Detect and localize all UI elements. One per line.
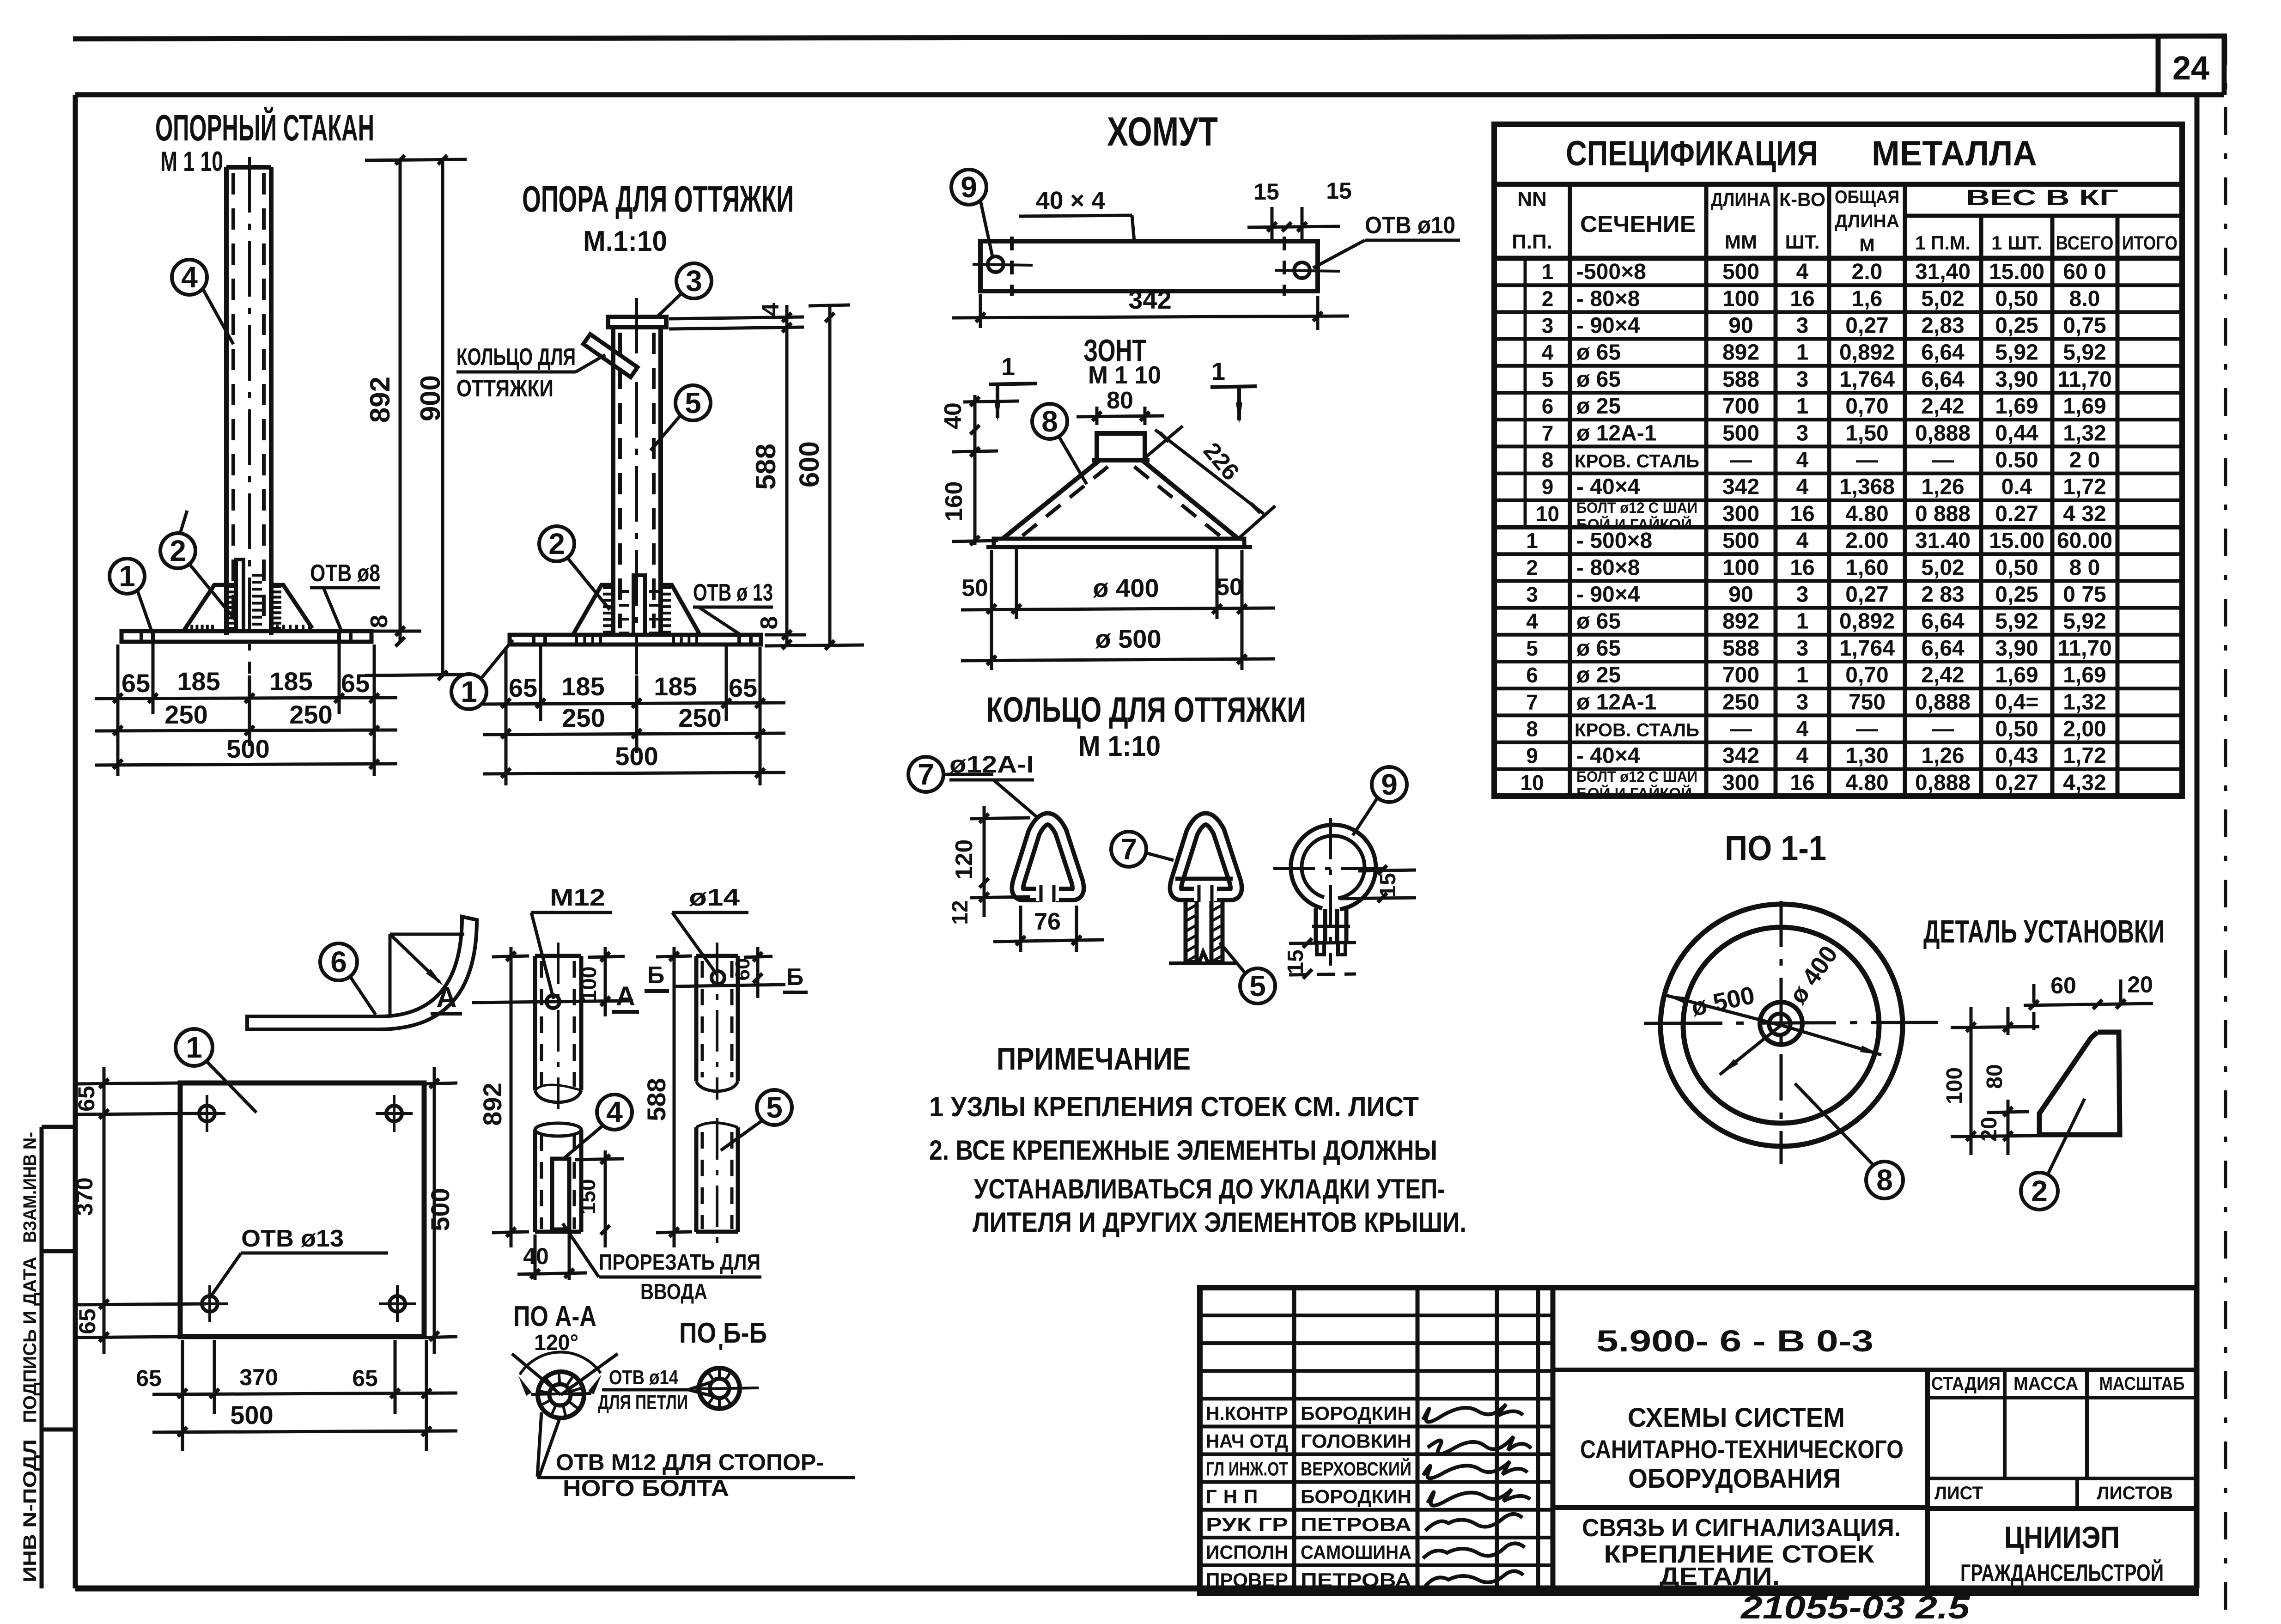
svg-text:5: 5	[1542, 367, 1554, 391]
svg-text:0,4=: 0,4=	[1995, 690, 2039, 714]
svg-text:1,368: 1,368	[1839, 475, 1895, 499]
svg-text:2 0: 2 0	[2069, 448, 2100, 473]
anchor bolt	[236, 560, 243, 631]
svg-text:5,92: 5,92	[1995, 341, 2038, 365]
wedge plate outline	[2039, 1032, 2120, 1135]
svg-text:0,892: 0,892	[1839, 609, 1895, 634]
svg-text:90: 90	[1728, 314, 1753, 338]
svg-text:М 1 10: М 1 10	[160, 146, 223, 177]
dim 892 vertical line	[399, 159, 402, 642]
svg-text:8: 8	[366, 615, 393, 628]
svg-text:4: 4	[606, 1095, 623, 1129]
svg-text:МЕТАЛЛА: МЕТАЛЛА	[1872, 134, 2037, 173]
svg-text:ОПОРНЫЙ СТАКАН: ОПОРНЫЙ СТАКАН	[155, 107, 374, 148]
svg-text:1: 1	[1211, 358, 1225, 385]
svg-text:31.40: 31.40	[1915, 529, 1971, 553]
svg-text:16: 16	[1790, 502, 1814, 526]
svg-text:М12: М12	[550, 884, 605, 911]
table row 11	[1494, 552, 2182, 556]
svg-text:4.80: 4.80	[1845, 502, 1888, 526]
svg-text:15.00: 15.00	[1989, 260, 2044, 284]
dim line 65-185-185-65 drawing1	[95, 698, 397, 699]
sheet number box	[2156, 37, 2161, 95]
svg-text:ОПОРА ДЛЯ ОТТЯЖКИ: ОПОРА ДЛЯ ОТТЯЖКИ	[522, 178, 794, 219]
svg-text:3: 3	[1526, 583, 1538, 607]
svg-text:ø 65: ø 65	[1576, 636, 1621, 661]
svg-text:1 УЗЛЫ КРЕПЛЕНИЯ СТОЕК СМ. ЛИ: 1 УЗЛЫ КРЕПЛЕНИЯ СТОЕК СМ. ЛИСТ	[929, 1091, 1419, 1122]
svg-text:УСТАНАВЛИВАТЬСЯ ДО УКЛАДКИ УТЕ: УСТАНАВЛИВАТЬСЯ ДО УКЛАДКИ УТЕП-	[974, 1174, 1445, 1204]
svg-text:ø12А-I: ø12А-I	[949, 751, 1034, 778]
table row 13	[1494, 606, 2182, 610]
svg-text:ø 12А-1: ø 12А-1	[1576, 690, 1656, 714]
svg-text:ЦНИИЭП: ЦНИИЭП	[2004, 1520, 2120, 1554]
svg-text:Б: Б	[647, 962, 664, 989]
svg-text:1,60: 1,60	[1845, 555, 1888, 580]
scan edge right	[2224, 37, 2227, 1622]
svg-text:ПО 1-1: ПО 1-1	[1725, 829, 1826, 868]
table NN sub column line	[1524, 258, 1527, 527]
svg-text:2: 2	[170, 534, 186, 567]
svg-text:0,70: 0,70	[1845, 663, 1888, 687]
svg-text:1,764: 1,764	[1839, 367, 1895, 392]
dim 226 diagonal	[1155, 430, 1264, 514]
svg-text:4: 4	[1796, 448, 1809, 473]
dim 40 slot	[534, 1235, 537, 1280]
svg-text:СХЕМЫ СИСТЕМ: СХЕМЫ СИСТЕМ	[1628, 1403, 1845, 1433]
svg-text:892: 892	[478, 1083, 507, 1125]
svg-text:0,50: 0,50	[1995, 286, 2038, 311]
svg-text:5,92: 5,92	[2063, 341, 2106, 365]
svg-text:НОГО БОЛТА: НОГО БОЛТА	[563, 1475, 729, 1501]
dim 892 tubes	[510, 947, 513, 1247]
table row 8	[1494, 472, 2182, 475]
svg-text:ПРОВЕР: ПРОВЕР	[1206, 1569, 1288, 1591]
svg-text:65: 65	[509, 673, 537, 702]
tube piece A	[535, 954, 581, 958]
svg-text:0,75: 0,75	[2063, 314, 2106, 338]
svg-text:1 П.М.: 1 П.М.	[1915, 232, 1971, 254]
svg-text:ХОМУТ: ХОМУТ	[1107, 109, 1218, 154]
svg-text:СПЕЦИФИКАЦИЯ: СПЕЦИФИКАЦИЯ	[1566, 134, 1818, 173]
svg-text:11,70: 11,70	[2057, 636, 2111, 661]
svg-text:М 1 10: М 1 10	[1088, 361, 1161, 389]
svg-text:1: 1	[1796, 609, 1809, 634]
svg-text:0.50: 0.50	[1995, 448, 2038, 473]
svg-text:ОТВ ø10: ОТВ ø10	[1365, 212, 1455, 239]
svg-text:15: 15	[1283, 949, 1308, 974]
table column lines	[1568, 258, 1572, 796]
svg-text:588: 588	[642, 1078, 671, 1121]
svg-text:РУК ГР: РУК ГР	[1206, 1514, 1288, 1535]
svg-text:4: 4	[1796, 744, 1809, 768]
svg-text:1: 1	[1526, 529, 1538, 553]
svg-text:500: 500	[615, 742, 658, 771]
svg-text:3,90: 3,90	[1995, 636, 2038, 661]
title block right section lines	[1925, 1370, 1930, 1593]
svg-text:20: 20	[2127, 972, 2153, 998]
table row 6	[1494, 418, 2182, 421]
svg-text:А: А	[616, 981, 635, 1011]
dim 900 vertical line	[441, 159, 444, 675]
dim 150 slot	[575, 1159, 624, 1160]
svg-text:0,888: 0,888	[1915, 421, 1971, 445]
guy support column tube	[611, 327, 615, 635]
svg-text:0,25: 0,25	[1995, 314, 2038, 338]
svg-text:500: 500	[226, 734, 269, 763]
svg-text:1: 1	[186, 1031, 202, 1064]
svg-text:4: 4	[1796, 717, 1809, 742]
svg-text:4: 4	[1796, 529, 1809, 553]
svg-text:- 80×8: - 80×8	[1576, 555, 1640, 580]
svg-text:250: 250	[678, 703, 721, 732]
svg-text:Н.КОНТР: Н.КОНТР	[1206, 1402, 1288, 1424]
svg-text:ø 12А-1: ø 12А-1	[1576, 421, 1656, 445]
svg-text:892: 892	[1722, 341, 1759, 365]
svg-text:НАЧ ОТД: НАЧ ОТД	[1206, 1430, 1288, 1452]
svg-text:0,27: 0,27	[1845, 314, 1888, 338]
svg-text:100: 100	[1942, 1067, 1967, 1104]
balloon 2	[160, 533, 195, 568]
dim 60 tube B	[744, 956, 772, 957]
svg-text:250: 250	[1722, 690, 1759, 714]
svg-text:3: 3	[1796, 583, 1809, 607]
svg-text:7: 7	[1526, 690, 1538, 714]
svg-text:3: 3	[1796, 690, 1809, 714]
tube piece D	[694, 1127, 699, 1232]
svg-text:САНИТАРНО-ТЕХНИЧЕСКОГО: САНИТАРНО-ТЕХНИЧЕСКОГО	[1580, 1435, 1904, 1464]
svg-text:16: 16	[1790, 286, 1814, 311]
signatures squiggles	[1423, 1404, 1523, 1422]
balloon 7 second	[1111, 832, 1146, 867]
svg-text:4: 4	[1526, 609, 1538, 633]
angle 120 arc with arrows	[520, 1352, 601, 1375]
svg-text:М: М	[1859, 235, 1874, 255]
svg-text:ПРИМЕЧАНИЕ: ПРИМЕЧАНИЕ	[997, 1041, 1191, 1077]
svg-text:А: А	[436, 982, 457, 1014]
title block outer border	[1200, 1288, 2196, 1593]
svg-text:6: 6	[1542, 394, 1554, 418]
svg-text:6,64: 6,64	[1921, 636, 1965, 661]
base plate drawing 1	[122, 631, 371, 642]
dim 100 tube A	[588, 956, 625, 957]
svg-text:3: 3	[1796, 367, 1809, 392]
svg-text:1: 1	[461, 675, 477, 708]
svg-text:ДЕТАЛИ.: ДЕТАЛИ.	[1660, 1563, 1780, 1590]
svg-text:40: 40	[940, 402, 967, 429]
svg-text:8: 8	[1041, 405, 1058, 438]
svg-text:60 0: 60 0	[2063, 260, 2106, 284]
sidebar column lines	[40, 1127, 44, 1588]
table header lines	[1494, 182, 2182, 187]
table row 2	[1494, 310, 2182, 314]
svg-text:2.00: 2.00	[1845, 529, 1888, 553]
svg-text:65: 65	[729, 673, 757, 702]
dim extension verticals drawing1	[116, 645, 120, 776]
svg-text:—: —	[1932, 448, 1954, 473]
svg-text:1: 1	[1796, 663, 1809, 687]
umbrella cone outer	[1003, 460, 1100, 539]
svg-text:9: 9	[961, 170, 977, 204]
section line А-А	[472, 1001, 633, 1003]
svg-text:СВЯЗЬ И СИГНАЛИЗАЦИЯ.: СВЯЗЬ И СИГНАЛИЗАЦИЯ.	[1582, 1514, 1901, 1542]
svg-text:1,69: 1,69	[2063, 394, 2106, 419]
svg-text:МАСШТАБ: МАСШТАБ	[2099, 1374, 2185, 1394]
center small circle inner	[1769, 1014, 1790, 1035]
svg-text:2,42: 2,42	[1921, 663, 1964, 687]
svg-text:1: 1	[1001, 353, 1015, 381]
svg-text:5: 5	[1526, 636, 1538, 660]
svg-text:1,50: 1,50	[1845, 421, 1888, 445]
svg-text:ОТВ ø8: ОТВ ø8	[310, 560, 380, 587]
svg-text:К-ВО: К-ВО	[1779, 189, 1825, 210]
svg-text:16: 16	[1790, 555, 1814, 580]
ring centerlines	[1329, 818, 1332, 966]
drawing frame	[75, 92, 2197, 97]
triangle ring section view	[1018, 819, 1078, 894]
crosshair vertical	[1780, 901, 1783, 1164]
svg-text:8: 8	[756, 616, 783, 630]
svg-text:2,42: 2,42	[1921, 394, 1964, 419]
leaders to stopor bolt note	[537, 1412, 541, 1477]
svg-text:2: 2	[1526, 555, 1538, 579]
svg-text:700: 700	[1722, 663, 1759, 687]
svg-text:- 90×4: - 90×4	[1576, 314, 1640, 338]
svg-text:БОЛТ ø12 С ШАЙ: БОЛТ ø12 С ШАЙ	[1576, 768, 1697, 785]
svg-text:24: 24	[2172, 50, 2209, 87]
svg-text:1: 1	[1796, 394, 1809, 419]
svg-text:NN: NN	[1517, 188, 1547, 211]
balloon 4	[172, 260, 207, 295]
svg-text:8: 8	[1542, 448, 1554, 472]
svg-text:ДЛИНА: ДЛИНА	[1711, 189, 1771, 210]
svg-text:0,44: 0,44	[1995, 421, 2038, 445]
svg-text:1,72: 1,72	[2063, 744, 2106, 768]
svg-text:ВЗАМ.ИНВ N-: ВЗАМ.ИНВ N-	[20, 1132, 40, 1243]
svg-text:1: 1	[1542, 260, 1554, 284]
dim ø500 line	[961, 659, 1275, 661]
svg-text:4: 4	[1796, 260, 1809, 284]
svg-text:10: 10	[1536, 502, 1559, 526]
svg-text:15: 15	[1253, 179, 1279, 205]
svg-text:ОБЩАЯ: ОБЩАЯ	[1835, 187, 1899, 207]
dim 600 vertical	[828, 305, 832, 645]
svg-text:0.4: 0.4	[2001, 475, 2032, 499]
svg-text:6,64: 6,64	[1921, 341, 1965, 365]
svg-text:—: —	[1856, 717, 1878, 742]
balloon 1	[109, 559, 145, 594]
strap left hole	[988, 256, 1004, 272]
plate hole top-right	[386, 1106, 402, 1121]
svg-text:0 75: 0 75	[2063, 583, 2106, 607]
table row 17	[1494, 713, 2182, 717]
svg-text:- 40×4: - 40×4	[1576, 744, 1640, 768]
dim 15 ring bottom	[1289, 943, 1356, 943]
svg-text:- 80×8: - 80×8	[1576, 286, 1640, 311]
svg-text:5: 5	[685, 386, 701, 420]
svg-text:ИНВ N-ПОДЛ: ИНВ N-ПОДЛ	[20, 1439, 40, 1582]
svg-text:КОЛЬЦО ДЛЯ: КОЛЬЦО ДЛЯ	[456, 344, 576, 371]
svg-text:500: 500	[1722, 529, 1759, 553]
hook arrow mark	[390, 933, 464, 936]
svg-text:ОТВ ø13: ОТВ ø13	[241, 1225, 344, 1252]
svg-text:80: 80	[1107, 387, 1133, 414]
left gusset drawing2	[573, 585, 613, 635]
svg-text:—: —	[1856, 448, 1878, 473]
svg-text:0,888: 0,888	[1915, 771, 1971, 795]
svg-text:9: 9	[1381, 768, 1398, 801]
svg-text:ø 25: ø 25	[1576, 663, 1621, 687]
balloon 1 plate	[176, 1029, 213, 1066]
svg-text:15.00: 15.00	[1989, 529, 2044, 553]
plate left dims 65-370-65	[103, 1100, 104, 1146]
svg-text:342: 342	[1128, 285, 1171, 314]
svg-text:0,50: 0,50	[1995, 717, 2038, 742]
title block vertical lines left section	[1292, 1288, 1296, 1593]
svg-text:ø14: ø14	[689, 884, 740, 911]
svg-text:ДЕТАЛЬ УСТАНОВКИ: ДЕТАЛЬ УСТАНОВКИ	[1923, 913, 2165, 949]
table row 15	[1494, 660, 2182, 663]
triangle ring on pipe view	[1176, 819, 1236, 894]
svg-text:588: 588	[750, 444, 781, 490]
crosshair horizontal	[1644, 1022, 1938, 1023]
svg-text:65: 65	[352, 1365, 378, 1391]
svg-text:60: 60	[731, 958, 754, 981]
svg-text:—: —	[1932, 717, 1954, 742]
svg-text:П.П.: П.П.	[1512, 231, 1552, 253]
svg-text:15: 15	[1376, 873, 1400, 897]
svg-text:6,64: 6,64	[1921, 367, 1965, 392]
svg-text:250: 250	[562, 703, 605, 732]
svg-text:9: 9	[1542, 475, 1554, 499]
svg-text:2.0: 2.0	[1852, 260, 1883, 284]
svg-text:ПЕТРОВА: ПЕТРОВА	[1301, 1514, 1411, 1535]
svg-text:0.27: 0.27	[1995, 502, 2038, 526]
table row 3	[1494, 337, 2182, 341]
svg-text:588: 588	[1722, 367, 1759, 392]
svg-text:65: 65	[122, 669, 150, 698]
svg-text:7: 7	[918, 758, 934, 791]
svg-text:300: 300	[1722, 502, 1759, 526]
svg-text:900: 900	[415, 375, 446, 421]
ring section А-А	[538, 1372, 584, 1418]
balloon 9 ring	[1372, 767, 1407, 802]
svg-text:1,69: 1,69	[1995, 663, 2038, 687]
plate hole top-left	[199, 1106, 215, 1121]
svg-text:0 888: 0 888	[1915, 502, 1971, 526]
svg-text:ЛИСТОВ: ЛИСТОВ	[2097, 1483, 2173, 1503]
svg-text:0,888: 0,888	[1915, 690, 1971, 714]
table row 12	[1494, 579, 2182, 583]
svg-text:20: 20	[1977, 1117, 2001, 1141]
svg-text:ММ: ММ	[1725, 231, 1757, 253]
svg-text:1,69: 1,69	[2063, 663, 2106, 687]
svg-text:2 83: 2 83	[1921, 583, 1964, 607]
table row 4	[1494, 364, 2182, 368]
svg-text:- 40×4: - 40×4	[1576, 475, 1640, 499]
svg-text:ø 500: ø 500	[1095, 624, 1161, 653]
round ring open view	[1291, 825, 1376, 909]
table row 10	[1494, 525, 2182, 529]
pipe under ring hatched	[1184, 901, 1188, 962]
svg-text:СТАДИЯ: СТАДИЯ	[1931, 1374, 2001, 1394]
svg-text:4: 4	[1542, 341, 1554, 365]
svg-text:3,90: 3,90	[1995, 367, 2038, 392]
svg-text:': '	[718, 1339, 724, 1366]
balloon 7 ring view	[908, 757, 943, 792]
svg-text:80: 80	[1983, 1064, 2007, 1089]
table row 19	[1494, 767, 2182, 771]
svg-text:ПЕТРОВА: ПЕТРОВА	[1301, 1569, 1411, 1591]
column2 centerline	[635, 298, 638, 675]
svg-text:1,26: 1,26	[1921, 744, 1964, 768]
svg-text:БОРОДКИН: БОРОДКИН	[1301, 1486, 1411, 1508]
balloon 5 drawing2	[675, 385, 711, 420]
svg-text:31,40: 31,40	[1915, 260, 1971, 284]
svg-text:- 500×8: - 500×8	[1576, 529, 1652, 553]
svg-text:ПОДПИСЬ И ДАТА: ПОДПИСЬ И ДАТА	[20, 1257, 40, 1423]
svg-text:0,27: 0,27	[1845, 583, 1888, 607]
svg-text:892: 892	[1722, 609, 1759, 634]
tube A hole	[547, 995, 560, 1008]
svg-text:5,02: 5,02	[1921, 555, 1964, 580]
plate bottom dims	[181, 1340, 184, 1451]
dim line 250-250 drawing1	[95, 730, 397, 731]
page top edge line	[73, 36, 2227, 39]
svg-text:ПО А-А: ПО А-А	[513, 1301, 596, 1332]
svg-text:ЛИСТ: ЛИСТ	[1934, 1483, 1983, 1503]
svg-text:892: 892	[365, 377, 395, 423]
support cup column tube	[224, 167, 229, 635]
svg-text:65: 65	[73, 1086, 99, 1112]
second radius arrow	[1720, 1025, 1781, 1075]
base plate drawing 2	[510, 635, 761, 645]
dim 342	[979, 294, 982, 328]
dim line 65-185-185-65 drawing2	[483, 703, 785, 704]
column tube dashed inner walls	[231, 173, 235, 628]
svg-text:КОЛЬЦО ДЛЯ ОТТЯЖКИ: КОЛЬЦО ДЛЯ ОТТЯЖКИ	[986, 690, 1306, 730]
svg-text:4,32: 4,32	[2063, 771, 2106, 795]
curved hook part 6	[247, 917, 477, 1029]
svg-text:ОТВ ø14: ОТВ ø14	[609, 1366, 678, 1389]
svg-text:76: 76	[1034, 908, 1061, 935]
svg-text:1 ШТ.: 1 ШТ.	[1991, 232, 2042, 254]
svg-text:3: 3	[686, 264, 702, 298]
svg-text:0,70: 0,70	[1845, 394, 1888, 419]
svg-text:40: 40	[523, 1243, 549, 1269]
svg-text:КРОВ. СТАЛЬ: КРОВ. СТАЛЬ	[1575, 720, 1699, 741]
ring inner circle	[1683, 927, 1879, 1123]
svg-text:ДЛЯ ПЕТЛИ: ДЛЯ ПЕТЛИ	[598, 1391, 688, 1414]
svg-text:500: 500	[230, 1400, 273, 1429]
svg-text:100: 100	[1722, 286, 1759, 311]
svg-text:ДЛИНА: ДЛИНА	[1835, 211, 1899, 231]
svg-text:50: 50	[961, 575, 988, 602]
right gusset drawing2	[661, 585, 700, 635]
svg-text:500: 500	[1722, 421, 1759, 445]
dim 76 ring	[1019, 906, 1022, 952]
svg-text:342: 342	[1722, 744, 1759, 768]
svg-text:2: 2	[1542, 286, 1554, 310]
svg-text:60.00: 60.00	[2057, 529, 2112, 553]
umbrella base ring plate	[994, 539, 1244, 547]
ring stub for guy	[584, 334, 638, 377]
svg-text:150: 150	[576, 1179, 600, 1215]
svg-text:ø 65: ø 65	[1576, 341, 1621, 365]
center small circle outer	[1760, 1002, 1802, 1045]
svg-text:ИСПОЛН: ИСПОЛН	[1206, 1541, 1288, 1563]
svg-text:750: 750	[1849, 690, 1886, 714]
diameter arrow ø500	[1664, 995, 1782, 1026]
